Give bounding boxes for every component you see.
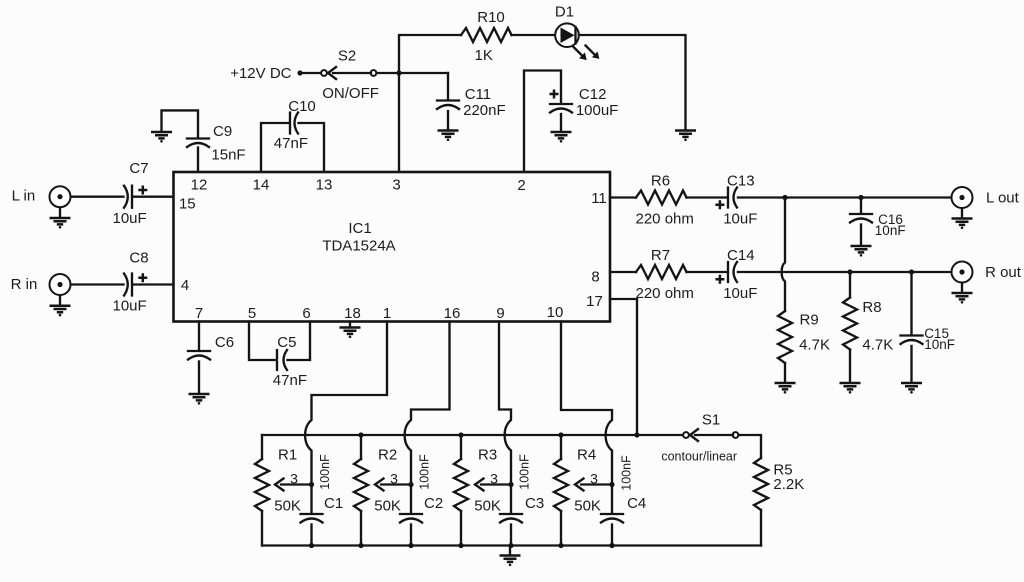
node bottom C4	[609, 543, 614, 548]
node bottom C3	[508, 543, 513, 548]
ground (pin 18)	[349, 322, 351, 327]
capacitor C1	[301, 454, 344, 546]
resistor R9 with crossover	[778, 198, 830, 383]
node bottom C2	[408, 543, 413, 548]
svg-text:16: 16	[444, 305, 461, 322]
capacitor C12	[550, 86, 619, 131]
svg-text:3: 3	[290, 471, 298, 487]
svg-text:100nF: 100nF	[620, 455, 634, 491]
svg-text:R3: R3	[478, 447, 497, 464]
svg-text:10: 10	[547, 304, 564, 321]
svg-text:50K: 50K	[474, 498, 501, 515]
potentiometer R3	[454, 435, 511, 546]
resistor R10	[461, 9, 512, 64]
node L row / R9	[782, 195, 787, 200]
wire pin 17 drop	[610, 299, 637, 433]
wire pin 9 to R3 wiper	[499, 322, 511, 485]
svg-text:14: 14	[253, 177, 270, 194]
wire R6 to C13	[687, 196, 727, 198]
svg-text:C7: C7	[129, 160, 148, 177]
svg-text:10uF: 10uF	[112, 210, 146, 227]
node rail R2	[358, 432, 363, 437]
svg-text:C5: C5	[277, 334, 296, 351]
svg-text:8: 8	[591, 269, 599, 286]
potentiometer R1	[255, 435, 312, 546]
ground (R out)	[952, 293, 973, 304]
svg-text:D1: D1	[555, 4, 574, 21]
ground (L in)	[50, 218, 71, 229]
svg-text:3: 3	[590, 471, 598, 487]
capacitor C11	[437, 73, 506, 130]
svg-text:220 ohm: 220 ohm	[636, 285, 694, 302]
wire D1 to ground drop	[579, 35, 686, 130]
svg-text:C10: C10	[288, 98, 316, 115]
wire S1 to R5	[739, 435, 762, 458]
svg-text:1: 1	[383, 305, 391, 322]
svg-text:6: 6	[302, 305, 310, 322]
svg-text:100uF: 100uF	[576, 102, 619, 119]
wire pin 16 to R2 wiper	[405, 322, 450, 485]
resistor R7	[636, 247, 694, 302]
connector R in	[11, 274, 71, 305]
wire top rail	[262, 434, 683, 436]
svg-text:R out: R out	[985, 264, 1022, 281]
svg-text:2: 2	[517, 177, 525, 194]
svg-text:220 ohm: 220 ohm	[636, 211, 694, 228]
ground (C15)	[901, 383, 922, 394]
ground (C12)	[551, 132, 572, 143]
node rail R4	[558, 432, 563, 437]
capacitor C15	[901, 272, 955, 382]
svg-text:11: 11	[591, 190, 607, 207]
node bottom R3	[458, 543, 463, 548]
capacitor C16	[850, 198, 906, 246]
switch S2	[321, 48, 379, 103]
capacitor C8	[71, 249, 173, 314]
svg-text:L in: L in	[12, 188, 36, 205]
svg-text:C2: C2	[424, 495, 443, 512]
wire pin 3 riser	[399, 35, 461, 171]
capacitor C2	[400, 454, 443, 546]
svg-text:R7: R7	[651, 247, 670, 264]
svg-text:C3: C3	[525, 495, 544, 512]
svg-text:2.2K: 2.2K	[773, 476, 804, 493]
ground (C6)	[189, 394, 210, 405]
capacitor C4	[601, 455, 646, 546]
svg-text:R4: R4	[577, 447, 596, 464]
svg-text:C9: C9	[213, 123, 232, 140]
wire C13 to L out	[738, 196, 951, 198]
svg-text:R8: R8	[862, 299, 881, 316]
svg-text:100nF: 100nF	[418, 454, 432, 490]
svg-text:47nF: 47nF	[274, 135, 308, 152]
capacitor C10	[261, 98, 324, 171]
wire pin 10 to R4 wiper	[561, 322, 612, 485]
svg-text:3: 3	[390, 471, 398, 487]
connector R out	[952, 262, 1022, 293]
svg-text:contour/linear: contour/linear	[661, 450, 737, 464]
svg-text:100nF: 100nF	[318, 454, 332, 490]
svg-text:47nF: 47nF	[273, 372, 307, 389]
svg-text:50K: 50K	[374, 498, 401, 515]
node bottom R4	[558, 543, 563, 548]
node bottom R2	[358, 543, 363, 548]
svg-text:9: 9	[496, 305, 504, 322]
svg-text:13: 13	[316, 177, 333, 194]
ground (R9)	[775, 383, 796, 394]
ground (C16)	[851, 246, 872, 257]
svg-text:R in: R in	[11, 276, 38, 293]
svg-text:S2: S2	[338, 48, 356, 65]
capacitor C5	[249, 322, 310, 390]
svg-text:5: 5	[248, 305, 256, 322]
LED D1	[555, 4, 599, 61]
ground (R8)	[840, 383, 861, 394]
node rail R3	[458, 432, 463, 437]
svg-text:3: 3	[392, 177, 400, 194]
wire +12V to S2	[302, 72, 321, 74]
svg-text:10nF: 10nF	[924, 337, 955, 352]
svg-text:10uF: 10uF	[723, 285, 757, 302]
ground (L out)	[952, 219, 973, 230]
svg-text:10uF: 10uF	[112, 298, 146, 315]
svg-text:+12V DC: +12V DC	[230, 65, 291, 82]
svg-text:R1: R1	[278, 447, 297, 464]
svg-text:C1: C1	[324, 495, 343, 512]
svg-text:C6: C6	[215, 334, 234, 351]
ground (C9 bracket)	[151, 132, 172, 143]
svg-text:C12: C12	[579, 86, 607, 103]
svg-text:L out: L out	[986, 190, 1020, 207]
ground (R in)	[50, 306, 71, 317]
potentiometer R4	[554, 435, 612, 546]
svg-text:R10: R10	[477, 9, 505, 26]
svg-text:3: 3	[490, 471, 498, 487]
svg-text:R9: R9	[800, 312, 819, 329]
wire pin 11 to R6	[610, 196, 636, 198]
wire S2 to node	[377, 72, 449, 74]
wire C14 to R out	[738, 271, 951, 273]
svg-text:4.7K: 4.7K	[862, 337, 893, 354]
svg-text:50K: 50K	[274, 498, 301, 515]
potentiometer R2	[354, 435, 411, 546]
svg-text:15nF: 15nF	[211, 147, 245, 164]
ground (D1 drop)	[675, 131, 696, 142]
capacitor C14	[715, 247, 757, 302]
node R row / C15	[909, 269, 914, 274]
node bottom C1	[309, 543, 314, 548]
wire bottom rail	[262, 544, 761, 546]
svg-text:S1: S1	[702, 412, 720, 429]
svg-text:12: 12	[191, 177, 208, 194]
resistor R8	[843, 272, 893, 382]
capacitor C9 with ground bracket	[162, 110, 246, 171]
connector L in	[12, 186, 71, 217]
resistor R6	[636, 173, 694, 228]
svg-text:R6: R6	[651, 173, 670, 190]
svg-text:C11: C11	[465, 86, 491, 103]
capacitor C13	[715, 173, 757, 228]
wire R7 to C14	[687, 271, 727, 273]
svg-text:10nF: 10nF	[875, 223, 906, 238]
svg-text:15: 15	[179, 196, 196, 213]
svg-text:1K: 1K	[475, 47, 493, 64]
ground (bottom rail)	[509, 546, 511, 555]
wire pin 1 to R1 wiper	[305, 322, 387, 485]
svg-text:7: 7	[195, 305, 203, 322]
svg-text:100nF: 100nF	[518, 454, 532, 490]
svg-text:C4: C4	[627, 495, 646, 512]
svg-text:220nF: 220nF	[463, 102, 506, 119]
svg-text:TDA1524A: TDA1524A	[322, 238, 395, 255]
svg-text:50K: 50K	[574, 498, 601, 515]
capacitor C3	[500, 454, 544, 546]
svg-text:4.7K: 4.7K	[799, 337, 830, 354]
svg-text:C14: C14	[727, 247, 755, 264]
svg-text:10uF: 10uF	[723, 211, 757, 228]
svg-text:IC1: IC1	[348, 220, 371, 237]
node junction pin3 column	[396, 70, 401, 75]
wire R10 to D1	[512, 34, 556, 36]
svg-text:18: 18	[344, 305, 361, 322]
connector L out	[952, 187, 1020, 218]
svg-text:4: 4	[181, 277, 189, 294]
capacitor C7	[71, 160, 173, 227]
svg-text:ON/OFF: ON/OFF	[322, 85, 379, 102]
svg-text:C13: C13	[727, 173, 755, 190]
node R row / R8	[847, 269, 852, 274]
node L row / C16	[858, 195, 863, 200]
ground (C11)	[438, 131, 459, 142]
switch S1	[661, 412, 738, 464]
resistor R5	[754, 458, 804, 546]
svg-text:R2: R2	[378, 447, 397, 464]
op-amp IC1 TDA1524A body	[174, 172, 611, 322]
wire pin 2 riser	[524, 71, 561, 172]
svg-text:C8: C8	[129, 249, 148, 266]
wire pin 8 to R7	[610, 271, 636, 273]
capacitor C6	[188, 322, 234, 394]
svg-text:17: 17	[586, 293, 603, 310]
node rail pin17	[634, 432, 639, 437]
